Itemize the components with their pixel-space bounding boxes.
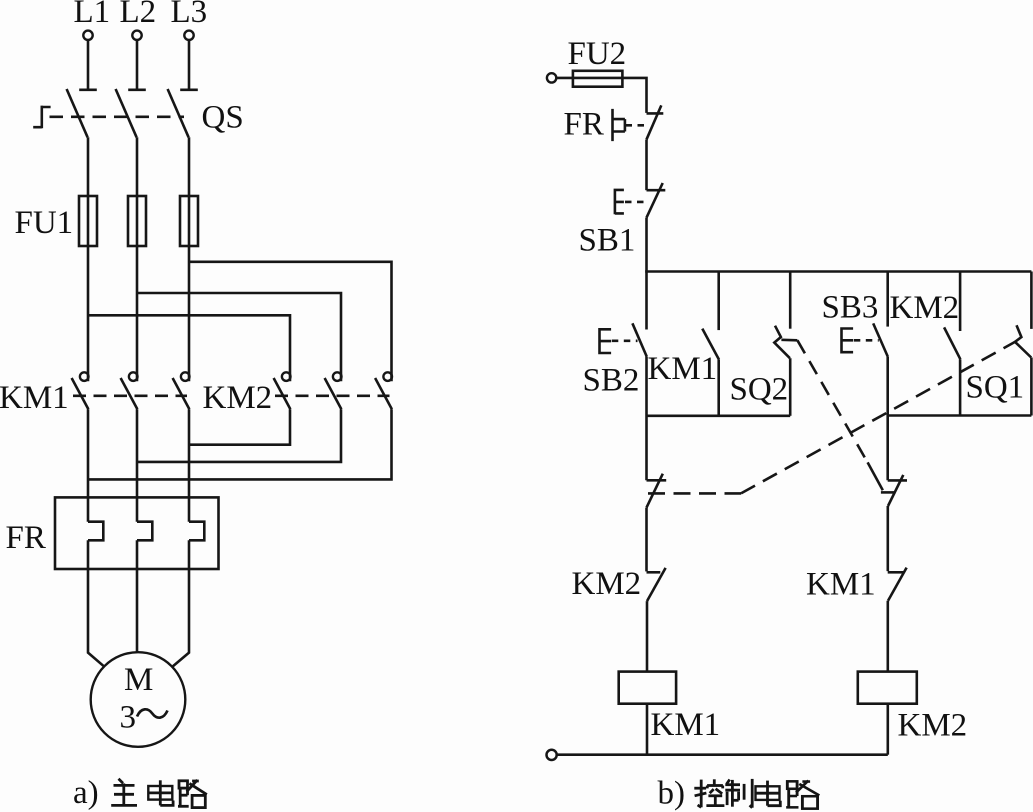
wire L3 lead-in [188, 40, 191, 90]
wire FR to SB1 [645, 140, 648, 191]
svg-text:a): a) [73, 775, 99, 811]
button SB1 actuator [615, 189, 624, 215]
svg-text:KM1: KM1 [806, 567, 876, 603]
wire phase1 QS to KM1 [87, 137, 90, 381]
relay FR NC contact [646, 105, 663, 139]
wire KM2 pole c to phase1 node [88, 409, 392, 479]
wire through fuse 2 [136, 196, 139, 246]
button SB3 actuator [842, 327, 854, 353]
wire right branch bottom bus [888, 414, 1032, 417]
wire phase3 KM1 to FR [188, 409, 191, 521]
node L1 terminal [83, 31, 92, 40]
contactor KM2 linkage dashed [275, 394, 390, 397]
caption hanzi dian (electric) [148, 780, 173, 805]
contactor KM1 linkage dashed [73, 394, 187, 397]
wire branch KM2-aux drop [959, 272, 962, 332]
wire branch SB2 drop [645, 272, 648, 330]
wire branch SB3 drop [886, 272, 889, 327]
wire left branch bottom bus [647, 414, 791, 417]
wire KM2 pole a to phase3 node [189, 409, 290, 444]
contactor KM2 main contact b [325, 372, 342, 409]
relay FR box [55, 497, 219, 569]
button SB3 NO contact [873, 323, 888, 357]
svg-text:FR: FR [6, 520, 46, 556]
svg-text:SB2: SB2 [583, 363, 640, 399]
svg-text:3: 3 [120, 700, 137, 736]
wire control bottom bus [557, 753, 888, 756]
button SB2 NO contact [632, 323, 646, 356]
limit switch SQ1 NC contact in KM1 branch [647, 474, 667, 508]
switch QS linkage dashed [50, 116, 185, 119]
svg-text:b): b) [658, 776, 686, 812]
wire SQ2 to left bottom bus [789, 358, 792, 416]
svg-text:FR: FR [564, 107, 604, 143]
wire L1 lead-in [87, 40, 90, 90]
linkage SQ2-NC tick [881, 491, 895, 494]
linkage SQ1-NC dashed diagonal to SQ1 [741, 342, 1015, 494]
svg-text:L1: L1 [74, 0, 111, 30]
button SB3 linkage dashed [854, 339, 879, 342]
svg-text:SQ1: SQ1 [966, 370, 1025, 406]
contactor KM2 interlock NC contact [647, 568, 666, 601]
relay FR actuator [611, 109, 625, 141]
contactor KM2 main contact a [274, 372, 291, 409]
svg-text:KM2: KM2 [890, 290, 960, 326]
button SB2 actuator [600, 328, 612, 354]
contactor KM1 main contact 3 [173, 372, 190, 409]
svg-text:KM1: KM1 [0, 380, 69, 416]
wire L2 lead-in [136, 40, 139, 90]
wire SQ2-NC to KM1 interlock [886, 506, 889, 571]
wire phase2 FR to motor [136, 540, 139, 652]
wire L2 feed to KM2 pole b [137, 293, 341, 381]
svg-text:QS: QS [202, 100, 244, 136]
svg-text:KM2: KM2 [203, 380, 273, 416]
limit switch SQ2 NC contact in KM2 branch [888, 475, 907, 506]
relay FR linkage dashed [626, 124, 650, 127]
fuse FU2 [573, 71, 623, 87]
contactor KM2 main contact c [375, 372, 392, 409]
svg-text:SB1: SB1 [579, 223, 636, 259]
wire SB2 to SQ1-NC [645, 357, 648, 481]
wire SQ1 to right bottom bus [1030, 358, 1033, 416]
node control supply terminal top [547, 73, 556, 82]
svg-text:KM1: KM1 [651, 707, 721, 743]
wire branch SQ1 drop [1030, 272, 1033, 329]
wire KM2 pole b to phase2 node [137, 409, 341, 462]
wire KM2 interlock to KM1 coil [646, 601, 649, 672]
button SB1 NC contact [646, 183, 665, 218]
wire top bus [647, 270, 1032, 271]
caption hanzi dian2 (electric) [756, 781, 781, 806]
switch QS pole 2 [116, 89, 146, 137]
wire KM2 coil to bottom bus [886, 704, 889, 755]
relay FR heater 3 [189, 522, 204, 541]
wire L3 feed to KM2 pole c [189, 262, 392, 381]
svg-text:M: M [124, 662, 153, 698]
linkage SQ1-NC dashed horizontal [648, 492, 741, 495]
wire KM1 interlock to KM2 coil [886, 601, 889, 672]
limit switch SQ2 NO contact [774, 326, 797, 359]
wire SB3 to SQ2-NC [886, 357, 889, 480]
coil KM1 [619, 672, 676, 704]
svg-text:FU2: FU2 [568, 36, 627, 72]
svg-text:KM2: KM2 [898, 708, 968, 744]
wire KM1 coil to bottom bus [646, 704, 649, 755]
contactor KM1 aux contact [702, 329, 719, 360]
fuse FU1 element 1 [79, 196, 97, 246]
node L3 terminal [184, 31, 193, 40]
wire phase3 QS to KM1 [188, 137, 191, 381]
svg-text:L2: L2 [120, 0, 157, 30]
wire branch KM1-aux drop [717, 272, 720, 331]
linkage SQ2-NC dashed diagonal from SQ2 [797, 340, 882, 490]
limit switch SQ1 NO contact [1015, 325, 1031, 357]
wire KM2-aux to right bottom bus [959, 359, 962, 415]
wire phase2 KM1 to FR [136, 409, 139, 521]
contactor KM1 main contact 2 [121, 372, 138, 409]
motor M circle [91, 652, 186, 747]
fuse FU1 element 3 [180, 196, 198, 246]
svg-text:SB3: SB3 [822, 290, 879, 326]
caption hanzi lu2 (road) [786, 781, 819, 809]
relay FR heater 2 [137, 522, 152, 541]
caption hanzi kong (control) [694, 779, 724, 807]
caption hanzi zhu (main) [111, 779, 137, 806]
caption hanzi lu (road) [178, 780, 207, 808]
contactor KM2 aux contact [944, 327, 960, 359]
wire phase2 QS to KM1 [136, 137, 139, 381]
wire phase1 FR to motor [88, 540, 104, 666]
wire through fuse 3 [188, 196, 191, 246]
svg-text:KM1: KM1 [648, 351, 718, 387]
switch QS pole 3 [168, 89, 198, 137]
switch QS handle [33, 106, 50, 129]
node L2 terminal [132, 31, 141, 40]
wire KM1-aux to left bottom bus [717, 360, 720, 416]
contactor KM1 interlock NC contact [888, 568, 907, 601]
relay FR heater 1 [88, 522, 103, 541]
wire branch SQ2 drop [789, 272, 792, 329]
caption hanzi zhi (system) [725, 779, 752, 808]
node control supply terminal bottom [547, 750, 557, 760]
svg-text:SQ2: SQ2 [730, 372, 789, 408]
wire FU2 internal [573, 77, 623, 80]
wire SB1 to bus [645, 218, 648, 272]
svg-text:FU1: FU1 [15, 205, 74, 241]
svg-text:KM2: KM2 [572, 566, 642, 602]
coil KM2 [858, 672, 917, 704]
button SB2 linkage dashed [612, 339, 638, 342]
svg-text:L3: L3 [171, 0, 208, 30]
wire phase1 KM1 to FR [87, 409, 90, 521]
wire SQ1-NC to KM2 interlock [645, 508, 648, 572]
switch QS pole 1 [67, 89, 97, 137]
contactor KM1 main contact 1 [72, 372, 89, 409]
wire phase3 FR to motor [173, 540, 189, 666]
wire L1 feed to KM2 pole a [88, 315, 290, 381]
wire through fuse 1 [87, 196, 90, 246]
wire terminal through FU2 to main drop [556, 78, 646, 113]
button SB1 linkage dashed [625, 201, 645, 204]
fuse FU1 element 2 [128, 196, 146, 246]
label 3-phase [120, 700, 168, 736]
